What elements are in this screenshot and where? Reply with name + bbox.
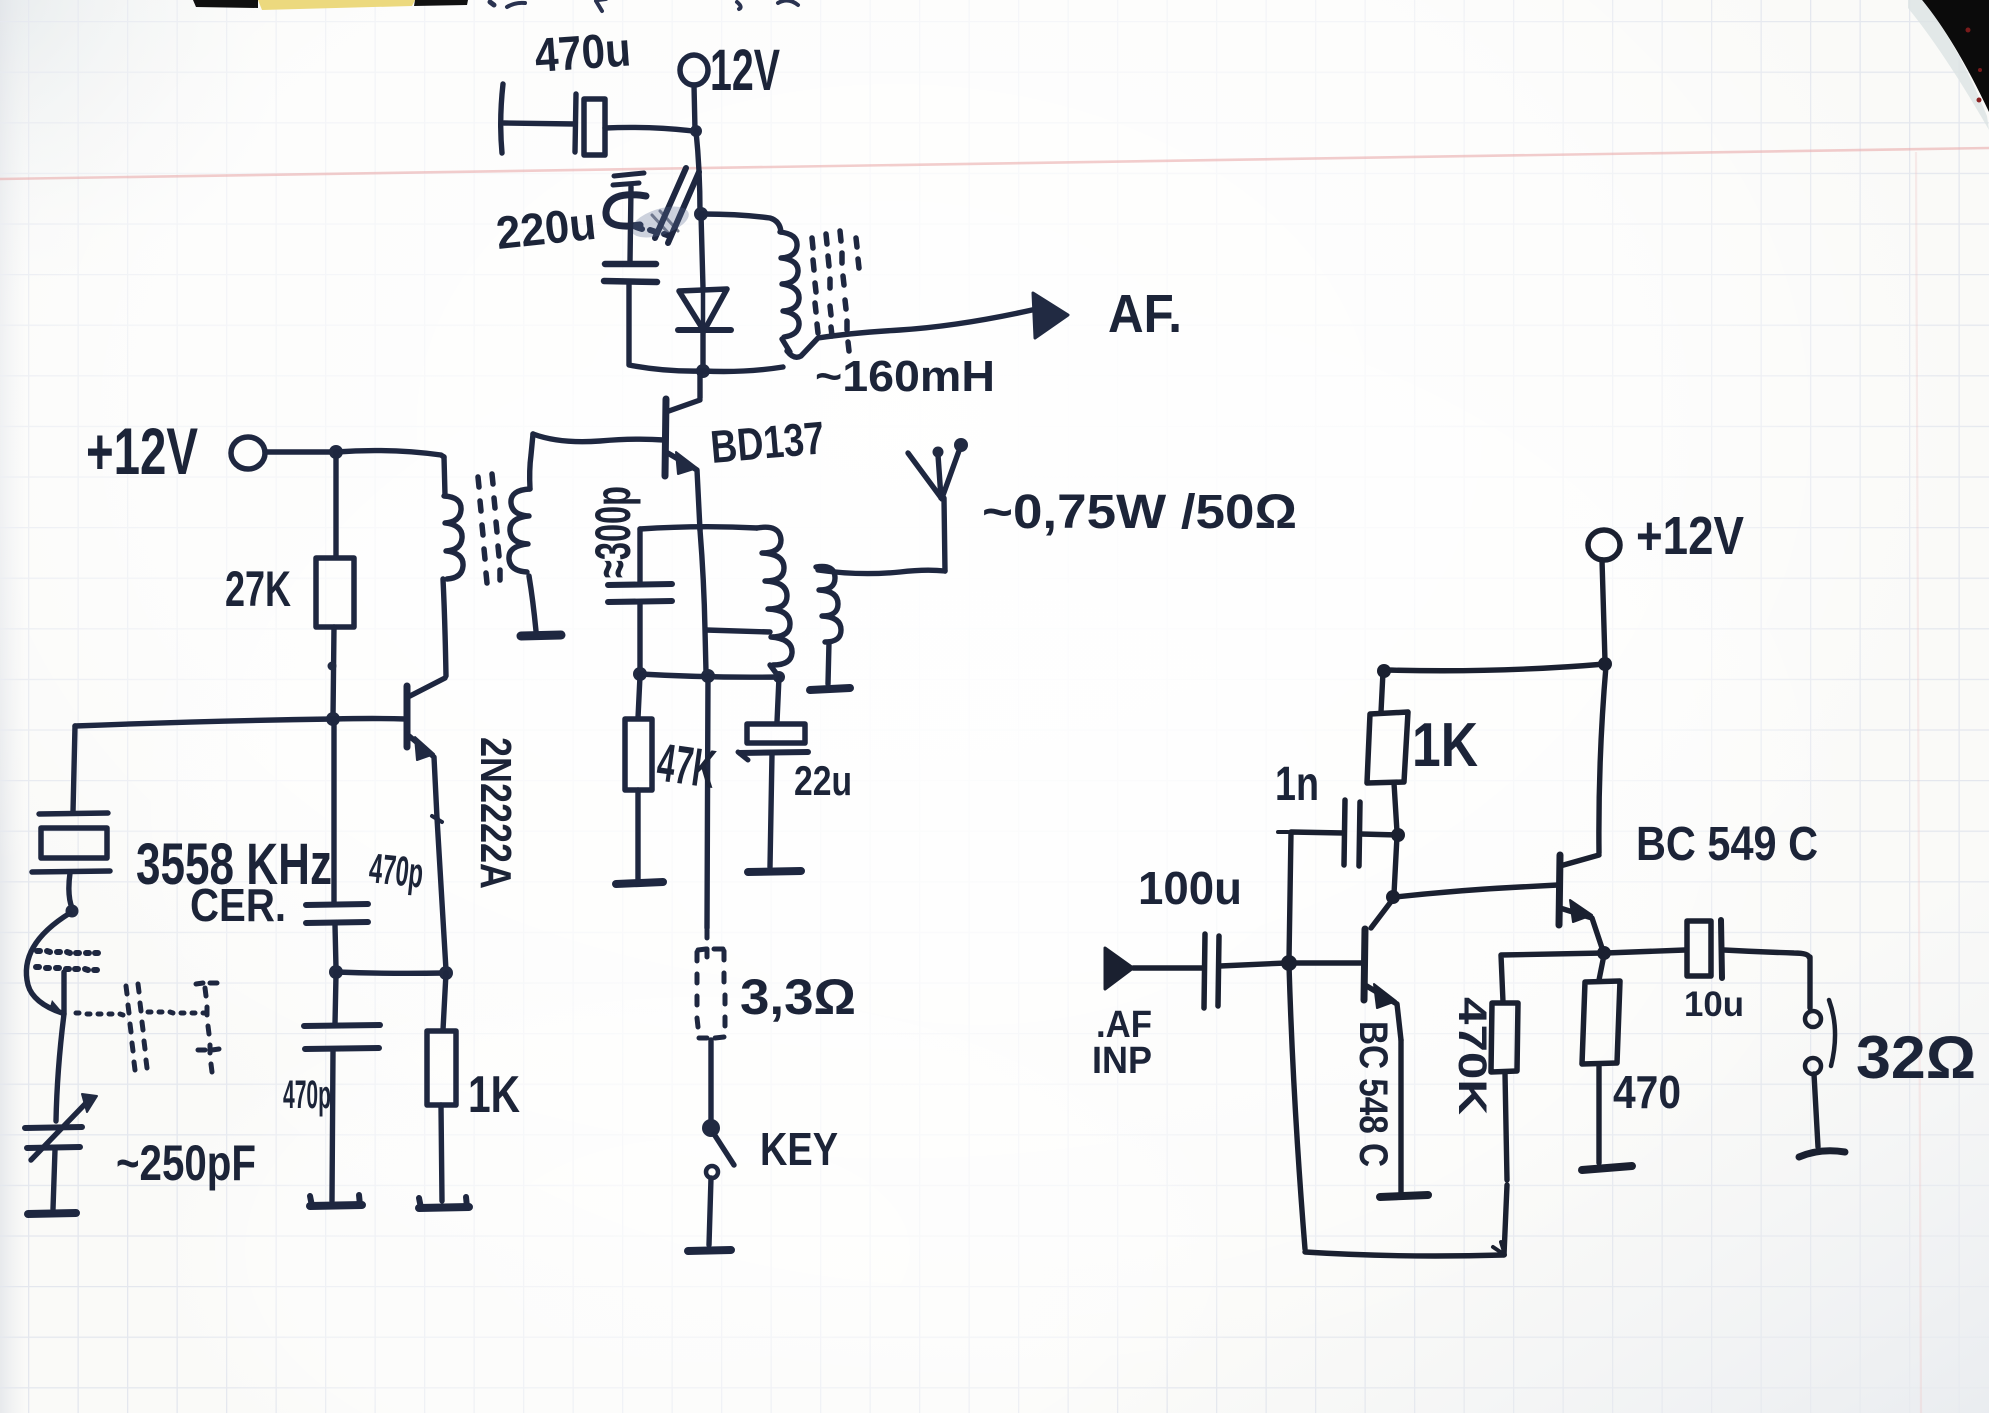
svg-text:+12V: +12V — [86, 414, 198, 488]
svg-text:470p: 470p — [283, 1073, 331, 1117]
svg-text:1K: 1K — [1412, 711, 1478, 780]
svg-text:~250pF: ~250pF — [116, 1135, 256, 1191]
svg-text:2N2222A: 2N2222A — [471, 737, 520, 889]
svg-text:AF.: AF. — [1108, 284, 1182, 344]
svg-text:22u: 22u — [794, 757, 852, 804]
svg-text:BC 548 C: BC 548 C — [1351, 1021, 1395, 1167]
svg-text:3,3Ω: 3,3Ω — [740, 969, 856, 1025]
svg-text:470p: 470p — [367, 844, 426, 896]
svg-text:~0,75W /50Ω: ~0,75W /50Ω — [982, 486, 1297, 539]
svg-text:KEY: KEY — [760, 1123, 838, 1175]
svg-text:BD137: BD137 — [708, 411, 826, 473]
svg-text:470u: 470u — [533, 23, 632, 83]
svg-text:1K: 1K — [468, 1066, 520, 1124]
svg-text:≈300p: ≈300p — [585, 486, 641, 578]
svg-text:INP: INP — [1092, 1040, 1152, 1082]
svg-text:+12V: +12V — [1636, 506, 1744, 566]
svg-text:BC 549 C: BC 549 C — [1636, 818, 1818, 871]
svg-text:220u: 220u — [494, 197, 599, 259]
svg-text:12V: 12V — [710, 38, 780, 103]
svg-text:27K: 27K — [225, 561, 291, 617]
svg-text:100u: 100u — [1138, 862, 1242, 914]
svg-text:CER.: CER. — [190, 879, 286, 931]
svg-text:1n: 1n — [1275, 758, 1319, 811]
svg-text:470: 470 — [1613, 1066, 1681, 1118]
svg-text:~160mH: ~160mH — [815, 352, 995, 401]
svg-text:470K: 470K — [1450, 997, 1494, 1115]
svg-text:32Ω: 32Ω — [1856, 1024, 1976, 1091]
svg-text:47K: 47K — [654, 732, 720, 799]
svg-text:10u: 10u — [1684, 985, 1744, 1024]
